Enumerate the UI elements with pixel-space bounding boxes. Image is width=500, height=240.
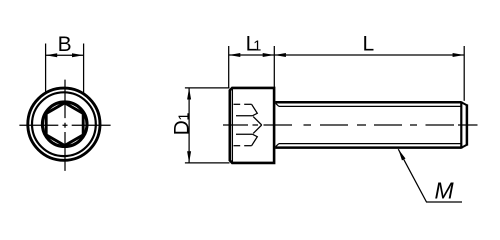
svg-text:1: 1 — [253, 39, 261, 55]
socket circle — [42, 102, 87, 147]
socket cone lower — [253, 125, 262, 133]
socket inner top line — [236, 115, 252, 117]
svg-text:M: M — [435, 178, 455, 204]
inner circle head chamfer — [32, 92, 96, 156]
L arrow right — [453, 53, 465, 57]
end chamfer diagonal top — [461, 102, 467, 105]
D1 extension line bottom — [185, 162, 230, 164]
D1 arrow bottom — [187, 151, 191, 163]
socket wall bottom line a — [234, 145, 241, 147]
outer circle head OD — [28, 88, 100, 160]
socket wall top line b — [244, 103, 251, 105]
B extension line right — [83, 44, 85, 94]
L arrow left — [274, 53, 286, 57]
svg-text:L: L — [362, 33, 374, 56]
B extension line left — [45, 44, 47, 94]
L extension line right — [463, 46, 465, 101]
socket inner bottom line — [236, 133, 252, 135]
socket top zigzag — [252, 104, 258, 116]
center line vertical — [64, 80, 66, 171]
thread start chamfer bottom — [276, 144, 279, 147]
B dimension line — [46, 54, 84, 56]
socket cone upper — [253, 117, 262, 125]
L1 dimension line — [229, 54, 275, 56]
L1/L shared extension line — [273, 46, 275, 87]
svg-text:D: D — [170, 120, 193, 135]
end chamfer diagonal bottom — [461, 145, 467, 148]
socket wall bottom line b — [244, 145, 251, 147]
svg-text:1: 1 — [176, 113, 192, 121]
shaft outline top — [275, 101, 461, 104]
socket side-view detail — [234, 104, 262, 145]
L1 arrow left — [229, 53, 241, 57]
end chamfer start line — [460, 101, 462, 148]
screw axis center line — [223, 124, 478, 126]
L dimension line — [274, 54, 464, 56]
head outline — [230, 88, 274, 163]
thread minor line top — [279, 105, 461, 107]
hex socket — [46, 103, 83, 146]
D1 arrow top — [187, 88, 191, 100]
center line horizontal — [19, 124, 110, 126]
L1 arrow right — [263, 53, 275, 57]
B arrow left — [46, 53, 58, 57]
L1 extension line left — [228, 46, 230, 89]
D1 extension line top — [185, 87, 230, 89]
head chamfer line — [231, 89, 233, 162]
socket wall top line a — [234, 103, 241, 105]
thread start chamfer top — [276, 103, 279, 106]
shaft outline bottom — [275, 146, 461, 149]
M leader line — [398, 149, 462, 202]
B arrow right — [72, 53, 84, 57]
M leader arrow — [397, 148, 406, 160]
thread minor line bottom — [279, 143, 461, 145]
end face line — [466, 104, 469, 145]
socket bottom zigzag — [252, 134, 258, 146]
D1 dimension line — [188, 88, 190, 163]
svg-text:B: B — [58, 33, 72, 56]
